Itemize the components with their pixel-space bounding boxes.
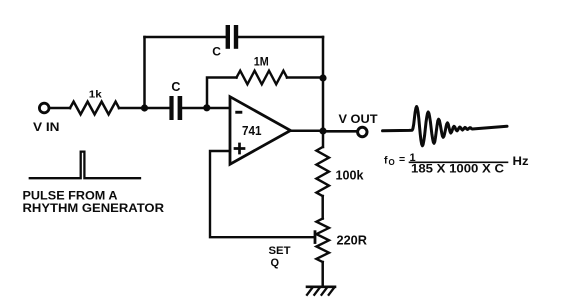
svg-text:1M: 1M xyxy=(254,56,269,68)
node A junction dot xyxy=(141,104,148,111)
resistor R1 1k xyxy=(70,89,119,115)
svg-text:Q: Q xyxy=(271,257,280,269)
wire pot to ground xyxy=(321,262,324,286)
terminal V OUT xyxy=(339,114,378,137)
pulse input waveform drawing xyxy=(30,152,140,179)
svg-text:185 X 1000 X C: 185 X 1000 X C xyxy=(411,162,504,176)
wire node D to V OUT terminal xyxy=(323,130,357,133)
svg-text:V OUT: V OUT xyxy=(339,114,378,126)
svg-text:C: C xyxy=(212,45,221,59)
terminal V IN xyxy=(33,103,60,134)
wire 100k to pot xyxy=(321,196,324,219)
output ringing waveform drawing xyxy=(383,107,508,146)
label pulse from a rhythm generator xyxy=(23,191,165,216)
svg-text:100k: 100k xyxy=(336,169,364,183)
svg-text:1k: 1k xyxy=(89,89,102,101)
wire cap to node B xyxy=(183,107,231,110)
svg-text:PULSE FROM A: PULSE FROM A xyxy=(23,191,118,203)
wire non-inverting input to wiper xyxy=(210,151,314,237)
wire output vertical net xyxy=(322,37,325,131)
label SET Q xyxy=(269,245,291,269)
svg-text:f: f xyxy=(384,155,388,167)
svg-text:V IN: V IN xyxy=(33,122,60,134)
potentiometer R4 220R xyxy=(316,219,367,263)
svg-text:RHYTHM GENERATOR: RHYTHM GENERATOR xyxy=(23,203,165,215)
resistor R2 1M xyxy=(237,56,288,84)
capacitor C series input xyxy=(169,80,182,120)
wire node B up to 1M feedback xyxy=(207,78,237,109)
op-amp U1 741 xyxy=(230,97,291,165)
wire node D down to 100k xyxy=(322,131,325,147)
node D junction dot (output) xyxy=(319,127,326,134)
svg-text:=: = xyxy=(399,154,405,166)
svg-text:SET: SET xyxy=(269,245,291,257)
wire R1 to node A xyxy=(119,107,169,110)
svg-text:220R: 220R xyxy=(337,234,368,248)
wire 1M to output net xyxy=(287,76,323,79)
svg-text:741: 741 xyxy=(242,124,262,138)
wire node A up to top net xyxy=(143,37,146,108)
svg-text:C: C xyxy=(171,80,180,94)
wire op-amp output to node D xyxy=(291,130,324,133)
svg-text:Hz: Hz xyxy=(513,156,529,168)
wiper arm of pot xyxy=(314,232,317,243)
node B junction dot (inverting input) xyxy=(203,104,210,111)
formula fo = 1/(185 x 1000 x C) Hz xyxy=(384,152,529,176)
svg-text:O: O xyxy=(389,158,395,167)
node C junction dot (feedback/output column) xyxy=(319,74,326,81)
wire top net left segment xyxy=(145,36,226,39)
resistor R3 100k xyxy=(316,147,363,196)
capacitor C top xyxy=(212,25,238,59)
wire terminal to R1 xyxy=(49,107,70,110)
wire top net right segment xyxy=(239,36,324,39)
ground xyxy=(307,287,335,295)
